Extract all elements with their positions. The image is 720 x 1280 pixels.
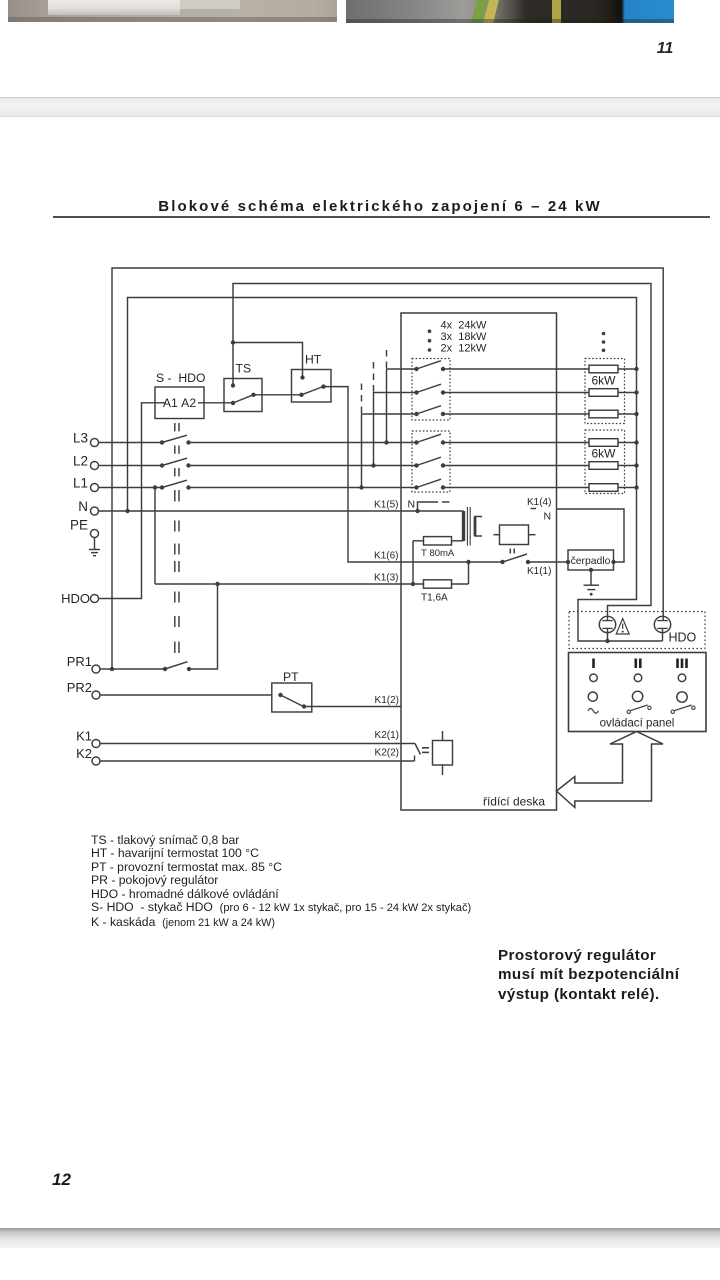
svg-text:2x 12kW: 2x 12kW bbox=[441, 343, 487, 355]
svg-text:K1(6): K1(6) bbox=[374, 551, 398, 562]
wire PT output K1(2) to board bbox=[304, 706, 401, 708]
contact cascade K pole 1 bbox=[414, 367, 418, 371]
svg-text:L3: L3 bbox=[73, 431, 88, 446]
wire contact 4 to heater bbox=[443, 442, 589, 444]
resistor heating element 5 bbox=[589, 462, 618, 470]
contact cascade K pole 3 bbox=[414, 412, 418, 416]
control panel box bbox=[569, 653, 707, 732]
ellipsis dots (more heaters) bbox=[602, 332, 606, 336]
svg-text:HT: HT bbox=[305, 353, 322, 367]
panel LEDs row 1 bbox=[590, 674, 598, 682]
resistor heating element 6 bbox=[589, 484, 618, 492]
fuse T 80mA bbox=[424, 537, 452, 545]
panel column labels I II III bbox=[592, 659, 688, 669]
wire heater 4 to N bus bbox=[618, 442, 637, 444]
terminal N bbox=[91, 507, 99, 515]
contact S-HDO main pole L3 bbox=[160, 440, 164, 444]
relay coil bbox=[500, 525, 529, 545]
wire L1 from terminal to S-HDO contact bbox=[99, 487, 163, 489]
wire contact 3 to heater bbox=[443, 413, 589, 415]
dashed continuation above L2 branch bbox=[373, 358, 375, 392]
svg-text:PE: PE bbox=[70, 518, 88, 533]
emergency thermostat HT bbox=[292, 370, 332, 403]
wire K1(3) row bbox=[155, 583, 424, 585]
wire branch from TS loop to HT top terminal bbox=[233, 343, 303, 378]
transformer secondary winding bbox=[475, 517, 482, 537]
contact cascade K pole 6 bbox=[414, 485, 418, 489]
wire heater 3 to N bus bbox=[618, 413, 637, 415]
wire K2 to jumper K2(2) bbox=[100, 760, 415, 762]
resistor heating element 3 bbox=[589, 410, 618, 418]
control board (ridici deska) bbox=[401, 313, 557, 810]
switch symbol under II bbox=[627, 710, 630, 713]
wire TS loop: TS top terminal up over top down to lamp 1 bbox=[233, 284, 651, 621]
jumper blade bbox=[415, 744, 421, 755]
svg-text:K2: K2 bbox=[76, 746, 92, 761]
fuse T1,6A bbox=[424, 580, 452, 588]
svg-text:L2: L2 bbox=[73, 454, 88, 469]
svg-text:T1,6A: T1,6A bbox=[421, 593, 448, 604]
wire L2 from terminal to S-HDO contact bbox=[99, 465, 163, 467]
heater group 2 box (dotted) bbox=[585, 430, 625, 494]
svg-text:PR1: PR1 bbox=[67, 654, 92, 669]
dashed continuation above L1 branch bbox=[361, 380, 363, 414]
contactor K bank 1 (dotted) bbox=[412, 359, 450, 421]
wire PR1 to contact bbox=[100, 668, 165, 670]
wire N from terminal to transformer (K1(5)) bbox=[99, 510, 464, 512]
svg-text:čerpadlo: čerpadlo bbox=[571, 556, 611, 567]
operating thermostat PT bbox=[272, 683, 312, 712]
svg-text:TS: TS bbox=[236, 362, 252, 376]
terminal L3 bbox=[91, 439, 99, 447]
wire contact 1 to heater bbox=[443, 368, 589, 370]
svg-text:6kW: 6kW bbox=[592, 374, 617, 388]
photo fragment left (previous page) bbox=[8, 0, 337, 22]
wire K1(3) up to fuse T80mA bbox=[412, 541, 414, 584]
svg-text:HDO: HDO bbox=[669, 631, 697, 645]
wire contact II to pump (K1(1)) bbox=[528, 561, 568, 563]
contact cascade K pole 4 bbox=[414, 440, 418, 444]
svg-text:4x 24kW: 4x 24kW bbox=[441, 319, 487, 331]
symbol ~ under I bbox=[588, 709, 598, 714]
dashed continuation above L3 branch bbox=[386, 346, 388, 368]
wire L3 from contact to cascade contactor bbox=[189, 442, 417, 444]
legend bbox=[91, 834, 471, 930]
wire heater 6 to N bus bbox=[618, 487, 637, 489]
jumper link component bbox=[433, 741, 453, 766]
ground symbol pump bbox=[590, 570, 592, 585]
wire coil A2 to TS switch bbox=[198, 402, 233, 404]
wire heater 1 to N bus bbox=[618, 368, 637, 370]
svg-text:K2(1): K2(1) bbox=[375, 730, 399, 741]
wire PR1 contact up to K1(3) bbox=[189, 584, 218, 669]
heater group 1 box (dotted) bbox=[585, 359, 625, 424]
terminal L1 bbox=[91, 484, 99, 492]
svg-text:T 80mA: T 80mA bbox=[421, 548, 455, 559]
wire L3 branch up to cascade contactor row 1 bbox=[387, 369, 417, 443]
ground symbol PE bbox=[94, 538, 96, 550]
dashed neutral link N bbox=[418, 502, 439, 511]
wire HDO terminal up to coil A1 bbox=[99, 403, 167, 599]
wire heater 5 to N bus bbox=[618, 465, 637, 467]
svg-text:PR2: PR2 bbox=[67, 680, 92, 695]
wire N loop: N terminal up over top, heater common bus, down to lamp bus bbox=[128, 298, 663, 642]
svg-text:S - HDO: S - HDO bbox=[156, 371, 205, 385]
contact S-HDO main pole L2 bbox=[160, 463, 164, 467]
wire TS to HT bbox=[254, 394, 302, 396]
resistor heating element 1 bbox=[589, 365, 618, 373]
note bbox=[498, 946, 679, 1004]
lamp I (TS loop) bbox=[599, 616, 615, 632]
page number 12 bbox=[52, 1170, 71, 1190]
pump box (cerpadlo) bbox=[568, 550, 614, 570]
svg-text:K1(5): K1(5) bbox=[374, 500, 398, 511]
contact cascade K pole 5 bbox=[414, 463, 418, 467]
svg-text:K1(4): K1(4) bbox=[527, 497, 551, 508]
wire fuse T1,6A up to contact II bbox=[468, 562, 470, 584]
mechanical linkage (dashed) of contactor S-HDO bbox=[175, 423, 179, 653]
terminal L2 bbox=[91, 462, 99, 470]
ellipsis dots (more contactors) bbox=[428, 329, 432, 333]
terminal K1 bbox=[92, 740, 100, 748]
label power variants bbox=[441, 319, 487, 354]
terminal PR2 bbox=[92, 691, 100, 699]
terminal K2 bbox=[92, 757, 100, 765]
resistor heating element 4 bbox=[589, 439, 618, 447]
svg-text:L1: L1 bbox=[73, 476, 88, 491]
svg-text:řídící deska: řídící deska bbox=[483, 795, 545, 809]
jumper fixed stub bbox=[414, 756, 416, 762]
wire HT output down to K1(6) bbox=[324, 387, 503, 562]
transformer core bbox=[466, 507, 468, 546]
terminal PR1 bbox=[92, 665, 100, 673]
panel knobs row 2 bbox=[588, 692, 597, 701]
HDO indicator box (dotted) bbox=[569, 612, 705, 649]
wire K1 to jumper K2(1) bbox=[100, 743, 415, 745]
page number 11 bbox=[645, 40, 685, 58]
photo fragment right (previous page) bbox=[346, 0, 674, 23]
terminal PE bbox=[91, 530, 99, 538]
contactor coil S-HDO (A1 A2) bbox=[155, 387, 204, 419]
contact cascade K pole 2 bbox=[414, 390, 418, 394]
contact PR1 (HDO controlled) bbox=[163, 667, 167, 671]
wire L1 branch up to cascade contactor row 3 bbox=[362, 414, 417, 488]
page separator band bbox=[0, 97, 720, 117]
svg-text:3x 18kW: 3x 18kW bbox=[441, 331, 487, 343]
contact S-HDO main pole L1 bbox=[160, 485, 164, 489]
bottom page edge band (next page) bbox=[0, 1228, 720, 1248]
title rule bbox=[53, 216, 710, 218]
wire contact 6 to heater bbox=[443, 487, 589, 489]
title bbox=[0, 198, 720, 215]
svg-text:ovládací panel: ovládací panel bbox=[600, 717, 675, 730]
svg-text:K2(2): K2(2) bbox=[375, 748, 399, 759]
wire L1 from contact to cascade contactor bbox=[189, 487, 417, 489]
transformer primary winding bbox=[462, 511, 465, 541]
svg-text:K1(3): K1(3) bbox=[374, 573, 398, 584]
wire contact 5 to heater bbox=[443, 465, 589, 467]
wire heater 2 to N bus bbox=[618, 392, 637, 394]
wire L3 from terminal to S-HDO contact bbox=[99, 442, 163, 444]
pump contact II bbox=[500, 560, 504, 564]
wire L1 branch down to K1(3) row bbox=[154, 488, 156, 585]
wire L2 from contact to cascade contactor bbox=[189, 465, 417, 467]
contactor K bank 2 (dotted) bbox=[412, 431, 450, 492]
svg-text:K1(1): K1(1) bbox=[527, 566, 551, 577]
svg-text:K1(2): K1(2) bbox=[375, 695, 399, 706]
svg-text:A1 A2: A1 A2 bbox=[163, 396, 196, 410]
svg-text:6kW: 6kW bbox=[592, 447, 617, 461]
equals sign bbox=[422, 747, 429, 749]
svg-text:HDO: HDO bbox=[61, 591, 90, 606]
wire contact 2 to heater bbox=[443, 392, 589, 394]
svg-text:K1: K1 bbox=[76, 729, 92, 744]
resistor heating element 2 bbox=[589, 389, 618, 397]
wire outer loop: PR1 contact up over top to HDO lamp 2 bbox=[112, 268, 663, 669]
svg-text:N: N bbox=[544, 511, 552, 523]
double arrow panel to board bbox=[557, 732, 664, 808]
svg-text:N: N bbox=[408, 499, 416, 511]
switch symbol under III bbox=[671, 710, 674, 713]
svg-text:N: N bbox=[78, 499, 88, 514]
wire PR2 to PT bbox=[100, 694, 272, 696]
lamp HDO (outer loop) bbox=[654, 616, 670, 632]
wire L2 branch up to cascade contactor row 2 bbox=[374, 393, 417, 466]
warning triangle bbox=[616, 619, 629, 635]
terminal HDO bbox=[91, 595, 99, 603]
pressure switch TS bbox=[224, 379, 262, 412]
svg-text:PT: PT bbox=[283, 670, 299, 684]
wire K1(4) N to pump right side bbox=[557, 509, 625, 562]
